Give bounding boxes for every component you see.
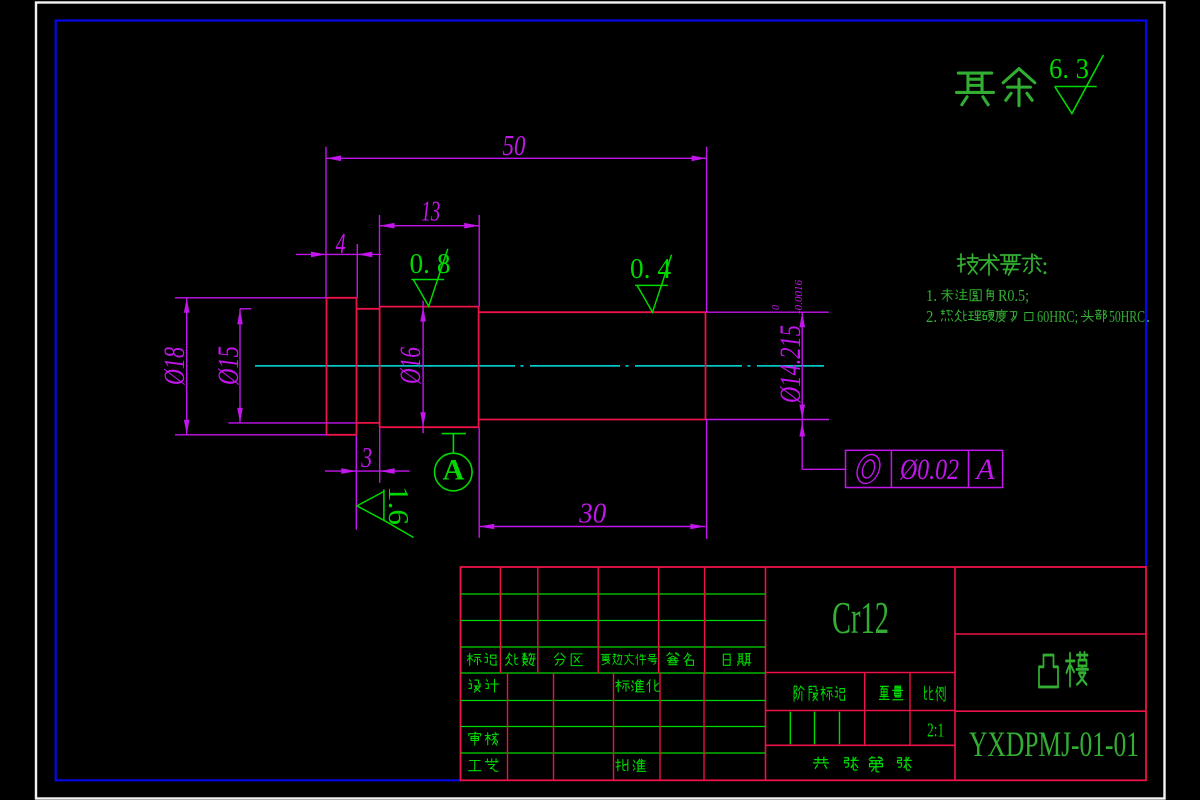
svg-text:0. 4: 0. 4: [630, 253, 671, 285]
svg-text:-0.0016: -0.0016: [794, 280, 805, 314]
svg-text:A: A: [443, 454, 465, 487]
svg-text:Ø0.02: Ø0.02: [899, 453, 959, 486]
svg-text:Ø16: Ø16: [394, 347, 427, 385]
svg-text:50: 50: [503, 131, 526, 162]
svg-text:Ø15: Ø15: [212, 346, 245, 386]
label QiYu (rest): [957, 73, 994, 105]
label JieDuanBiaoJi: [794, 686, 804, 701]
part outline: step face 15-16: [379, 307, 381, 428]
label BiLi: [925, 686, 933, 699]
label ShenHe: [469, 732, 481, 745]
surface finish 1.6 on neck: [357, 489, 414, 537]
extension line 3 left: [355, 435, 357, 530]
svg-text:2.: 2.: [926, 307, 937, 326]
label ZhongLiang: [879, 686, 889, 699]
title block left table green rules: [461, 593, 766, 595]
part name TuMo (punch): [1039, 655, 1058, 687]
svg-text::: :: [1042, 253, 1049, 280]
svg-text:Ø18: Ø18: [158, 347, 191, 386]
svg-text:0. 8: 0. 8: [410, 248, 451, 280]
label SheJi: [469, 680, 481, 692]
part outline: right end face: [705, 312, 707, 419]
dimension diameter 18: [175, 297, 327, 299]
label GengGaiWenJianHao: [601, 654, 610, 665]
svg-text:Cr12: Cr12: [832, 592, 889, 643]
part outline: flange 18 left face: [326, 298, 328, 435]
surface finish 0.4 on tip 14.215: [635, 255, 672, 313]
svg-text:4: 4: [336, 229, 346, 260]
dimension 13: [380, 225, 480, 227]
svg-text:R0.5;: R0.5;: [998, 286, 1029, 305]
datum A symbol: [442, 433, 466, 435]
dimension 4 (flange width): [296, 253, 381, 255]
title block upper column rules: [499, 567, 501, 673]
label FenQu: [554, 653, 565, 665]
svg-text:1.: 1.: [926, 286, 937, 305]
title block outer frame: [461, 567, 1147, 780]
dimension 30: [479, 526, 705, 528]
label RiQi: [723, 654, 730, 665]
part outline: flange top edge: [327, 297, 357, 299]
label PiZhun: [616, 759, 628, 770]
extension line 13/30 shared: [478, 215, 480, 307]
surface finish 6.3 (rest of surfaces): [1055, 55, 1104, 114]
svg-text:0: 0: [771, 305, 782, 310]
label GongYi: [469, 760, 481, 770]
centerline (part axis): [255, 365, 515, 367]
label BiaoJi: [467, 653, 481, 665]
dimension diameter 14.215 0/-0.0016: [706, 311, 829, 313]
label GongZhangDiZhang: [813, 757, 828, 768]
title block lower column rules: [507, 673, 509, 780]
extension line 13 left: [379, 215, 381, 307]
svg-text:A: A: [974, 453, 995, 486]
svg-text:13: 13: [421, 197, 440, 228]
extension line left (50/4): [325, 147, 327, 298]
svg-text:3: 3: [360, 443, 372, 474]
technical requirements note: [958, 254, 979, 274]
part outline: body 16 top edge: [380, 306, 479, 308]
title block middle grid: [766, 672, 956, 674]
dimension diameter 16: [422, 301, 424, 434]
part outline: tip 14.215 bottom edge: [479, 419, 706, 421]
feature control frame: concentricity 0.02 to A: [801, 420, 803, 470]
part outline: step face 16-14.215: [478, 307, 480, 428]
part outline: neck 15 top edge: [357, 308, 380, 310]
part outline: neck 15 bottom edge: [357, 422, 380, 424]
extension line 4 right: [356, 244, 358, 298]
dimension 50 (overall length): [326, 157, 707, 159]
svg-text:60HRC;: 60HRC;: [1037, 307, 1078, 326]
svg-text:.: .: [1146, 307, 1150, 326]
part outline: body 16 bottom edge: [380, 426, 479, 428]
svg-text:50HRC: 50HRC: [1109, 307, 1145, 326]
part outline: flange right face: [356, 298, 358, 435]
dimension 3 (neck width): [325, 470, 410, 472]
label QianMing: [667, 653, 679, 665]
svg-text:1.6: 1.6: [382, 486, 414, 525]
extension line right (50/30): [706, 147, 708, 312]
svg-text:YXDPMJ-01-01: YXDPMJ-01-01: [969, 724, 1139, 764]
svg-text:30: 30: [578, 499, 606, 530]
dimension diameter 15: [240, 308, 251, 310]
svg-text:6. 3: 6. 3: [1049, 53, 1089, 85]
label BiaoZhunHua: [616, 680, 630, 692]
stage mark green ticks: [789, 712, 791, 745]
svg-text:2:1: 2:1: [927, 720, 944, 742]
part outline: tip 14.215 top edge: [479, 311, 706, 313]
label ChuShu: [506, 653, 518, 665]
extension line 3 right: [379, 427, 381, 483]
surface finish 0.8 on body 16: [411, 249, 448, 306]
part outline: flange bottom edge: [327, 434, 357, 436]
title block right grid: [955, 633, 1146, 635]
svg-text:Ø14.215: Ø14.215: [774, 325, 807, 404]
